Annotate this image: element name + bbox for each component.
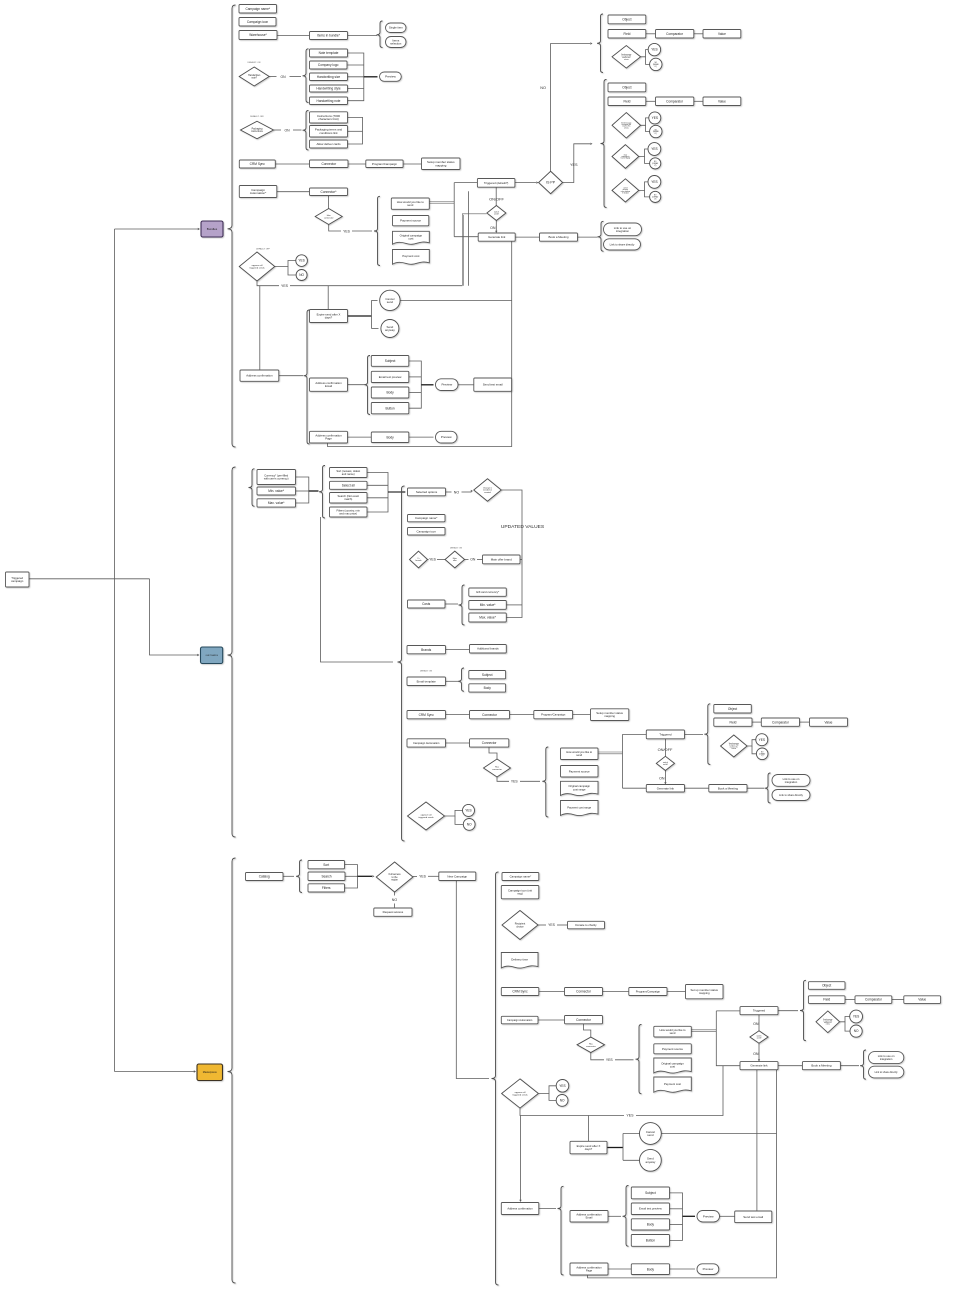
category node Bundles: [201, 221, 223, 237]
wire approve yes mp: [539, 1086, 556, 1094]
svg-text:YES: YES: [651, 180, 657, 184]
node Connector bundles: [310, 160, 349, 168]
svg-text:Link to use onintegration: Link to use onintegration: [614, 226, 632, 233]
wire expire up mp: [588, 1116, 590, 1142]
svg-text:NO: NO: [467, 823, 472, 827]
wire trunk to Bundles: [115, 228, 199, 230]
svg-text:DEFAULT: ON: DEFAULT: ON: [420, 670, 433, 673]
node Button bundles: [371, 403, 409, 414]
node Body gift: [469, 684, 506, 692]
node Field mp: [808, 996, 845, 1004]
wire connector to has connector: [328, 196, 330, 209]
wire has conn yes gift: [497, 777, 509, 781]
svg-text:Allow deliver cards: Allow deliver cards: [316, 142, 341, 146]
state Send anyway bundles: [381, 320, 399, 338]
svg-text:Address confirmation: Address confirmation: [507, 1206, 533, 1210]
svg-text:Link to share directly: Link to share directly: [779, 793, 803, 797]
svg-text:Link to share directly: Link to share directly: [875, 1071, 899, 1074]
svg-text:Object: Object: [622, 86, 631, 90]
wire to cancel mp: [623, 1133, 639, 1135]
wire left into Triggered: [454, 182, 477, 184]
node Connector gift: [470, 711, 510, 719]
wire crm connector gift: [446, 714, 470, 716]
svg-text:Value: Value: [718, 99, 726, 103]
wire note outputs join: [348, 53, 364, 101]
wire switch generate mp: [758, 1043, 760, 1059]
node Address confirmation mp: [501, 1203, 539, 1215]
doc Original campaign cost mp: [654, 1058, 692, 1073]
svg-text:Instructions (7000characters l: Instructions (7000characters limit): [317, 114, 340, 121]
node Preview note: [380, 72, 402, 81]
brace note options: [303, 49, 309, 103]
svg-text:Body: Body: [386, 391, 394, 395]
wire costs to brace: [445, 603, 458, 605]
wire crm connector mp: [539, 991, 565, 993]
node Object gift: [714, 705, 752, 714]
wire approve to YES NO: [275, 261, 296, 267]
node Generate link gift: [646, 785, 684, 793]
wire book links mp: [840, 1065, 859, 1067]
wire acpage to body: [348, 436, 372, 438]
decision criteria gift: [721, 735, 748, 757]
svg-text:Campaign icon: Campaign icon: [417, 529, 437, 533]
brace address confirmation mp: [558, 1186, 564, 1275]
wire triggered to criteria gift: [685, 733, 704, 735]
decision Handwritten note: [239, 67, 269, 86]
svg-text:Comparator: Comparator: [666, 99, 684, 103]
wire criteria yes no notPP: [641, 50, 649, 57]
wire Triggered to switch: [495, 187, 497, 205]
node Search mp: [308, 872, 345, 881]
state NO isPP1: [650, 125, 662, 137]
wire NO to change diamond: [462, 491, 472, 493]
node Object mp: [808, 982, 845, 990]
node Book a Meeting bundles: [540, 233, 578, 241]
wire rail mp: [716, 1011, 740, 1066]
node Warehouse: [239, 31, 277, 40]
decision Approve all triggered sends: [239, 252, 275, 281]
decision criteria isPP 3: [612, 179, 639, 202]
node Campaign Automation gift: [407, 739, 446, 747]
state NO approve gift: [463, 819, 475, 831]
svg-text:Campaign name*: Campaign name*: [415, 516, 438, 520]
node Preview email bundles: [436, 379, 459, 391]
wire cancel feedback mp: [661, 1133, 776, 1135]
svg-text:Min. value*: Min. value*: [480, 603, 497, 607]
wire packaging mid output: [348, 130, 363, 132]
svg-text:Gift card currency*: Gift card currency*: [476, 590, 500, 594]
wire feedback loop bundles: [328, 241, 512, 446]
svg-text:Payment source: Payment source: [569, 769, 590, 773]
wire gift list join: [367, 473, 388, 513]
wire packaging to ON: [274, 129, 282, 131]
wire acpage body mp: [608, 1268, 631, 1270]
svg-text:Email text preview: Email text preview: [379, 375, 403, 379]
arrow selected options: [404, 491, 406, 493]
node Connector automation mp: [565, 1016, 603, 1024]
node Single item: [386, 23, 407, 33]
decision Has connector mp: [577, 1037, 605, 1053]
svg-text:Program/Campaign: Program/Campaign: [372, 162, 397, 166]
wire YES flow right: [290, 285, 462, 287]
wire generate book gift: [685, 787, 709, 789]
svg-text:YES: YES: [465, 809, 471, 813]
node Expire send mp: [570, 1141, 607, 1154]
wire into Generate link: [454, 236, 478, 238]
svg-text:Connector: Connector: [576, 1018, 592, 1022]
wire access no: [394, 892, 396, 896]
wire rail triggered mp: [716, 1010, 740, 1012]
wire how send double gift 2: [598, 753, 623, 755]
wire field comparator gift: [752, 721, 761, 723]
svg-text:Button: Button: [385, 406, 394, 410]
state YES notPP: [648, 43, 660, 55]
svg-text:Filters (country, minand max p: Filters (country, minand max price): [336, 508, 360, 515]
brace bundle item options: [377, 21, 383, 48]
svg-text:Triggeredcampaign: Triggeredcampaign: [11, 576, 24, 583]
wire program mapping mp: [667, 991, 686, 993]
svg-text:ON: ON: [490, 226, 496, 230]
node Note template: [310, 49, 348, 57]
wire yes to main offer: [437, 559, 445, 561]
wire comparator value notPP: [694, 33, 703, 35]
wire email body join: [409, 392, 422, 394]
node Value isPP: [703, 97, 741, 106]
decision switch on off bundles: [487, 206, 506, 221]
state Cancel send bundles: [380, 290, 400, 310]
svg-text:Email text preview: Email text preview: [639, 1207, 663, 1211]
svg-text:Payment cost: Payment cost: [402, 254, 419, 258]
node Link share mp: [869, 1066, 904, 1078]
svg-text:Packaginginstructions: Packaginginstructions: [251, 129, 263, 134]
node Items in bundle: [310, 32, 348, 40]
wire currency mid join: [296, 490, 309, 492]
node Items selection: [386, 37, 407, 48]
brace masterpiece children: [492, 872, 499, 1285]
wire ON to note options: [290, 76, 302, 78]
svg-text:YES: YES: [511, 780, 519, 784]
svg-text:#GIFTCARDS: #GIFTCARDS: [205, 654, 218, 657]
wire criteria no mp: [845, 1022, 850, 1031]
node Sort mp: [308, 861, 345, 869]
wire no to request: [394, 904, 396, 909]
svg-text:Bundles: Bundles: [207, 227, 218, 231]
svg-text:NO: NO: [540, 86, 546, 90]
node CRM Sync bundles: [239, 160, 275, 168]
decision send criteria notPP: [612, 46, 641, 69]
wire switch to Generate: [495, 221, 497, 232]
node Handwriting note: [310, 97, 348, 105]
svg-text:Preview: Preview: [441, 435, 453, 439]
svg-text:Request access: Request access: [383, 910, 404, 914]
svg-text:Donate to charity: Donate to charity: [575, 923, 597, 927]
svg-text:Min. value*: Min. value*: [268, 489, 285, 493]
decision Change is needed: [474, 479, 502, 502]
wire YES to send opts: [352, 230, 372, 232]
decision Packaging instructions: [241, 121, 274, 139]
svg-text:Triggered: Triggered: [753, 1009, 766, 1013]
node Sort gift: [330, 468, 368, 478]
node Send test email bundles: [474, 378, 512, 391]
wire field comparator notPP: [646, 33, 656, 35]
node Search gift: [330, 493, 368, 504]
node ProgramCampaign bundles: [366, 160, 403, 168]
svg-text:NO: NO: [392, 898, 398, 902]
wire criteria no notPP: [646, 57, 650, 65]
svg-text:Send test email: Send test email: [743, 1215, 763, 1219]
state YES isPP3: [648, 176, 661, 189]
wire connector program gift: [510, 714, 534, 716]
node Preview page bundles: [436, 431, 458, 443]
svg-text:Costs: Costs: [422, 602, 431, 606]
svg-text:Comparator: Comparator: [772, 720, 790, 724]
svg-text:YES: YES: [626, 1113, 634, 1117]
wire to send anyway: [372, 328, 379, 330]
node Triggered gift: [646, 730, 684, 739]
wire trunk to branches: [29, 578, 150, 580]
svg-text:Campaign Automation: Campaign Automation: [507, 1018, 533, 1022]
wire connector to program: [348, 163, 366, 165]
brace share links mp: [860, 1050, 866, 1079]
wire book links gift: [747, 787, 764, 789]
brace criteria cluster isPP: [601, 80, 607, 208]
brace send options bundles: [374, 196, 380, 265]
svg-text:Connector*: Connector*: [321, 190, 338, 194]
wire to send anyway mp: [623, 1159, 639, 1161]
wire email join to preview: [421, 384, 433, 386]
svg-text:Field: Field: [623, 99, 630, 103]
wire program to mapping: [403, 163, 421, 165]
wire rail to generate gift: [623, 787, 647, 789]
node Triggered mp: [740, 1007, 778, 1015]
node Setup member mapping mp: [686, 985, 724, 999]
brace criteria gift: [704, 704, 710, 765]
wire catalog join: [345, 865, 358, 888]
node Link integration gift: [772, 775, 810, 787]
state NO isPP2: [650, 158, 661, 169]
node Campaign name gift: [408, 515, 446, 522]
node Triggered default: [477, 179, 515, 188]
node Campaign name mp: [502, 873, 539, 881]
wire trunk to Gift cards: [150, 579, 199, 655]
wire triggered criteria mp: [778, 1010, 798, 1012]
state YES approve gift: [463, 804, 475, 816]
state NO criteria mp: [850, 1025, 862, 1037]
decision approve all gift: [408, 802, 445, 830]
svg-text:Preview: Preview: [703, 1267, 715, 1271]
wire Generate to Book: [515, 236, 539, 238]
svg-text:Button: Button: [646, 1239, 655, 1243]
svg-text:Comparator: Comparator: [666, 32, 684, 36]
svg-text:Connector: Connector: [321, 162, 337, 166]
state YES criteria mp: [850, 1010, 863, 1023]
node Connector automation gift: [470, 739, 509, 747]
brace share links bundles: [598, 221, 604, 251]
node Connector mp: [565, 988, 603, 996]
svg-text:YES: YES: [281, 284, 289, 288]
brace Masterpiece section: [228, 858, 236, 1283]
doc Payment cost mp: [654, 1077, 692, 1092]
arrow address conf mp: [519, 1200, 521, 1202]
svg-text:Value: Value: [825, 720, 833, 724]
state NO approve mp: [556, 1095, 568, 1107]
wire isPP2 no: [645, 157, 650, 164]
node Campaign Automation mp: [501, 1016, 538, 1024]
wire body preview page mp: [670, 1268, 696, 1270]
node Link integration mp: [869, 1052, 904, 1064]
node Email text preview bundles: [371, 371, 409, 382]
node Connector star bundles: [310, 188, 348, 196]
wire isPP3 yes: [639, 182, 648, 191]
arrow into Gift cards: [197, 654, 199, 656]
svg-text:CRM Sync: CRM Sync: [512, 990, 528, 994]
svg-text:Items in bundle*: Items in bundle*: [317, 34, 341, 38]
wire comparator value gift: [800, 721, 810, 723]
node Preview page mp: [697, 1264, 719, 1275]
wire join to access: [358, 875, 373, 877]
node Min value gift top: [257, 487, 296, 495]
wire criteria no gift: [752, 746, 756, 754]
svg-text:Link to use onintegration: Link to use onintegration: [878, 1054, 895, 1061]
wire email parts join mp: [670, 1193, 683, 1241]
wire approve no mp: [549, 1094, 556, 1101]
decision Has connector bundles: [315, 209, 342, 225]
wire email preview join mp: [670, 1208, 683, 1210]
node Email template gift: [407, 677, 446, 686]
wire how send double gift 1: [598, 751, 623, 753]
svg-text:Catalog: Catalog: [259, 875, 270, 879]
wire yes donate: [557, 924, 568, 926]
wire how send double mp 2: [691, 1031, 716, 1033]
arrow generate mp: [758, 1059, 760, 1061]
node Button mp: [631, 1235, 669, 1247]
node Filters gift: [330, 507, 368, 517]
node Address confirmation Page bundles: [310, 431, 348, 443]
wire preview send test mp: [720, 1215, 735, 1217]
svg-text:Single item: Single item: [389, 26, 404, 30]
svg-text:Book a Meeting: Book a Meeting: [718, 786, 738, 790]
node How send mp: [654, 1026, 692, 1037]
node Object isPP: [608, 83, 646, 92]
wire automation to connector: [277, 191, 310, 193]
wire search join: [367, 497, 388, 499]
svg-text:YES: YES: [559, 1084, 565, 1088]
svg-text:YES: YES: [429, 558, 437, 562]
svg-text:Warehouse*: Warehouse*: [249, 33, 267, 37]
wire brands yes: [428, 559, 429, 561]
node Campaign icon: [239, 18, 276, 27]
node Generate link mp: [740, 1062, 778, 1070]
svg-text:ON/OFF: ON/OFF: [489, 196, 504, 201]
brace packaging options: [303, 111, 309, 151]
wire generate down 2 mp: [588, 1070, 777, 1278]
svg-text:YES: YES: [606, 1058, 614, 1062]
arrow generate gift: [664, 782, 666, 784]
wire field comparator mp: [845, 999, 855, 1001]
wire circle bracket bundles: [371, 300, 373, 328]
wire Book to links: [578, 236, 598, 238]
node How would you like to send: [391, 198, 429, 209]
state YES approve bundles: [296, 255, 308, 267]
wire switch generate gift: [664, 771, 666, 783]
wire body to preview page: [409, 436, 434, 438]
wire left rail gift: [622, 734, 624, 788]
arrow into Masterpiece: [194, 1070, 196, 1072]
arrow change diamond: [471, 490, 473, 492]
svg-text:ON: ON: [659, 776, 665, 780]
svg-text:Triggered: Triggered: [659, 732, 672, 736]
svg-text:Value: Value: [918, 998, 926, 1002]
wire acemail brace mp: [608, 1215, 621, 1217]
brace email template parts: [458, 668, 464, 691]
svg-text:Program/Campaign: Program/Campaign: [636, 989, 661, 993]
brace address confirmation bundles: [304, 310, 310, 444]
wire currency to list brace: [309, 490, 319, 492]
svg-text:Field: Field: [823, 998, 830, 1002]
wire main vertical trunk: [114, 229, 116, 1072]
doc Original campaign cost range: [561, 781, 599, 795]
node Address confirmation bundles: [240, 370, 279, 381]
wire up line x468: [467, 191, 469, 285]
wire select all join: [367, 484, 388, 486]
wire trunk to Masterpiece: [115, 1071, 195, 1073]
svg-text:Campaign name*: Campaign name*: [510, 874, 533, 878]
node Value notPP: [703, 30, 741, 39]
wire connector has conn mp: [584, 1024, 591, 1037]
svg-text:Payment cost: Payment cost: [664, 1082, 681, 1086]
brace costs gift: [459, 585, 465, 625]
svg-text:DEFAULT: OFF: DEFAULT: OFF: [250, 115, 265, 118]
svg-text:Search: Search: [321, 874, 331, 878]
decision switch mp: [750, 1031, 768, 1043]
wire isPP1 no: [646, 125, 650, 131]
node Comparator mp: [855, 996, 892, 1004]
node Selected options: [408, 488, 446, 496]
node Donate to charity: [568, 921, 605, 929]
brace share links gift: [765, 773, 771, 803]
wire cluster down to rows: [321, 517, 394, 662]
node Field notPP: [608, 30, 646, 39]
svg-text:Campaign Automation: Campaign Automation: [413, 741, 440, 745]
wire join preview mp: [683, 1215, 696, 1217]
svg-text:Body: Body: [647, 1267, 655, 1271]
svg-text:Triggered (default?): Triggered (default?): [484, 181, 509, 185]
wire Items in bundle to brace: [348, 35, 378, 37]
node Catalog: [246, 873, 284, 881]
arrow into ISPP: [536, 181, 538, 183]
svg-text:YES: YES: [853, 1015, 859, 1019]
node Max value gift: [469, 613, 507, 622]
node Object notPP: [608, 15, 646, 24]
node Request access: [374, 908, 412, 916]
svg-text:YES: YES: [419, 874, 427, 878]
svg-text:Max. value*: Max. value*: [479, 616, 496, 620]
node CRM Sync gift: [407, 711, 446, 719]
wire circle bracket mp: [622, 1134, 624, 1161]
svg-text:Object: Object: [822, 984, 831, 988]
svg-text:YES: YES: [548, 923, 556, 927]
decision criteria mp: [816, 1011, 840, 1033]
state NO isPP3: [650, 191, 661, 202]
svg-text:Currency* (pre-filledwith user: Currency* (pre-filledwith user's currenc…: [264, 473, 289, 480]
svg-text:Body: Body: [386, 435, 394, 439]
wire address conf to brace: [279, 375, 303, 377]
svg-text:YES: YES: [298, 259, 304, 263]
wire triggered switch gift: [664, 739, 666, 757]
wire yes flow right mp: [636, 1066, 723, 1116]
node Address confirmation Email bundles: [310, 378, 348, 391]
svg-text:Selected options: Selected options: [416, 490, 438, 494]
